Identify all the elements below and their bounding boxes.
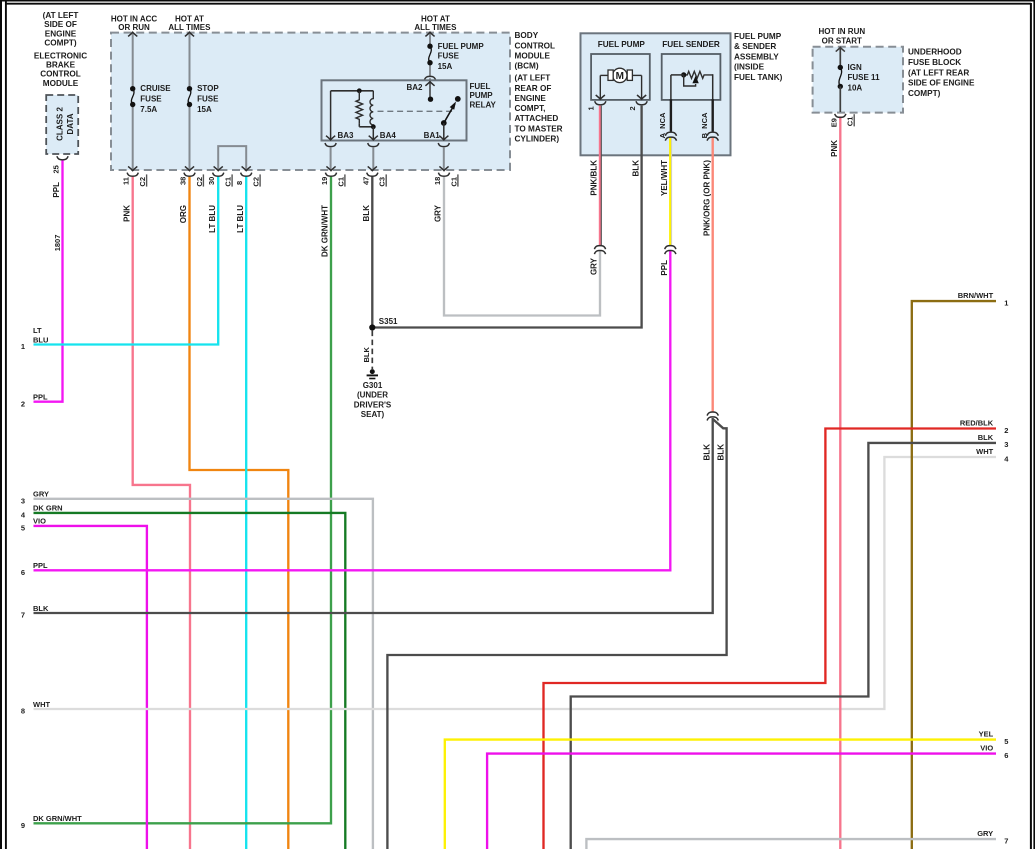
- svg-text:FUEL PUMP: FUEL PUMP: [734, 32, 782, 41]
- fuel pump fuse feed wire: [429, 33, 431, 46]
- svg-text:YEL/WHT: YEL/WHT: [660, 160, 669, 196]
- cruise fuse F1 7.5A: [130, 86, 135, 91]
- svg-text:2: 2: [21, 399, 25, 408]
- relay pin BA4: [372, 127, 374, 140]
- svg-text:SEAT): SEAT): [361, 410, 385, 419]
- wire VIO left row 5: [34, 526, 147, 849]
- svg-text:1: 1: [21, 342, 25, 351]
- svg-text:C2: C2: [252, 177, 261, 187]
- svg-text:47: 47: [361, 177, 370, 185]
- svg-text:CONTROL: CONTROL: [515, 41, 555, 50]
- svg-text:& SENDER: & SENDER: [734, 42, 776, 51]
- svg-text:REAR OF: REAR OF: [515, 84, 552, 93]
- wire GRY left row 3: [34, 499, 373, 849]
- svg-text:PNK: PNK: [122, 205, 131, 222]
- svg-text:(AT LEFT: (AT LEFT: [43, 11, 79, 20]
- BCM pin 8 C2: [242, 166, 251, 170]
- wire RED/BLK right row 2: [544, 429, 997, 849]
- svg-text:WHT: WHT: [33, 700, 50, 709]
- svg-text:3: 3: [21, 496, 25, 505]
- wire PNK from BCM pin 11: [133, 176, 190, 849]
- svg-text:GRY: GRY: [434, 204, 443, 222]
- svg-text:FUEL SENDER: FUEL SENDER: [662, 40, 720, 49]
- svg-text:1: 1: [1004, 298, 1008, 307]
- svg-text:11: 11: [122, 177, 131, 185]
- pump pin 1: [596, 95, 605, 99]
- svg-text:C1: C1: [224, 177, 233, 187]
- svg-text:DATA: DATA: [66, 113, 75, 134]
- EBCM pin 25: [57, 156, 68, 160]
- svg-text:FUSE: FUSE: [197, 94, 219, 103]
- svg-text:8: 8: [21, 707, 25, 716]
- svg-text:FUEL PUMP: FUEL PUMP: [438, 42, 485, 51]
- svg-text:LT BLU: LT BLU: [236, 205, 245, 233]
- stop fuse feed wire: [189, 33, 191, 88]
- svg-text:OR START: OR START: [822, 37, 862, 46]
- svg-text:(BCM): (BCM): [515, 62, 539, 71]
- wire BRN/WHT right row 1: [912, 301, 996, 849]
- wire BLK from BCM pin 47 to S351: [371, 176, 373, 327]
- wire LT BLU from BCM pin 8: [245, 176, 247, 849]
- svg-text:15A: 15A: [197, 105, 212, 114]
- sender rheostat: [684, 71, 713, 78]
- svg-text:BA2: BA2: [406, 83, 423, 92]
- pin E9 C1: [835, 114, 846, 118]
- BCM pin 30 C1: [214, 166, 223, 170]
- svg-text:COMPT,: COMPT,: [515, 104, 546, 113]
- svg-text:5: 5: [1004, 737, 1008, 746]
- svg-text:5: 5: [21, 524, 25, 533]
- svg-text:(AT LEFT REAR: (AT LEFT REAR: [908, 68, 969, 77]
- svg-text:ATTACHED: ATTACHED: [515, 114, 559, 123]
- relay coil top bus: [331, 90, 374, 92]
- inline connector GRY/PNK-BLK: [594, 246, 605, 250]
- fuel pump relay box: [322, 80, 467, 140]
- svg-text:6: 6: [21, 568, 25, 577]
- svg-text:A NCA: A NCA: [658, 112, 667, 138]
- splice S351: [369, 324, 375, 330]
- svg-text:ENGINE: ENGINE: [515, 94, 547, 103]
- cruise fuse feed wire: [132, 33, 134, 88]
- svg-text:GRY: GRY: [977, 829, 993, 838]
- svg-text:OR RUN: OR RUN: [118, 23, 150, 32]
- svg-text:(UNDER: (UNDER: [357, 391, 388, 400]
- BCM pin 18 C1: [439, 166, 448, 170]
- svg-text:CLASS 2: CLASS 2: [55, 107, 64, 141]
- loop linking pins 30 and 8: [218, 146, 246, 169]
- svg-text:PNK/ORG (OR PNK): PNK/ORG (OR PNK): [702, 160, 711, 236]
- svg-text:IGN: IGN: [848, 63, 862, 72]
- wire GRY right row 7: [586, 839, 996, 849]
- EBCM CLASS 2 DATA box: [46, 95, 78, 154]
- BCM pin 38 C2: [185, 166, 194, 170]
- IGN fuse feed wire: [839, 48, 841, 68]
- svg-text:BLU: BLU: [33, 335, 48, 344]
- svg-text:RELAY: RELAY: [470, 100, 497, 109]
- relay pin BA1: [443, 123, 445, 140]
- NCA connector B: [707, 132, 718, 136]
- svg-text:FUEL: FUEL: [470, 82, 491, 91]
- svg-text:BLK: BLK: [362, 347, 371, 363]
- svg-text:FUEL TANK): FUEL TANK): [734, 73, 783, 82]
- svg-text:C3: C3: [378, 177, 387, 187]
- BCM pin 47 C3: [368, 166, 377, 170]
- svg-text:BODY: BODY: [515, 31, 539, 40]
- svg-text:COMPT): COMPT): [908, 89, 941, 98]
- BLK wire S351 to ground: [371, 331, 373, 369]
- sender pin B: [712, 99, 714, 131]
- relay pin BA2: [425, 82, 434, 86]
- svg-text:BLK: BLK: [362, 205, 371, 222]
- inline connector BLK/PNK-ORG: [707, 412, 718, 416]
- fuel pump & sender assembly box: [581, 33, 731, 155]
- svg-text:PNK: PNK: [830, 140, 839, 157]
- svg-text:B NCA: B NCA: [700, 112, 709, 138]
- svg-text:COMPT): COMPT): [44, 39, 77, 48]
- svg-text:CONTROL: CONTROL: [40, 70, 80, 79]
- svg-text:M: M: [616, 71, 624, 82]
- svg-text:1807: 1807: [53, 235, 62, 252]
- svg-text:9: 9: [21, 821, 25, 830]
- svg-text:7: 7: [1004, 836, 1008, 845]
- relay switch contacts: [428, 97, 433, 102]
- ground G301: [370, 369, 375, 374]
- sender pin A: [670, 99, 672, 131]
- relay coil inductor: [370, 91, 373, 127]
- svg-text:8: 8: [235, 181, 244, 185]
- fuel pump fuse F3 15A: [427, 44, 432, 49]
- border frame: [0, 0, 2, 849]
- svg-text:FUSE 11: FUSE 11: [848, 73, 881, 82]
- wire YEL/WHT sender A above connector: [669, 138, 671, 246]
- relay coil resistor: [356, 91, 363, 124]
- svg-text:E9: E9: [829, 118, 838, 127]
- svg-text:C1: C1: [449, 177, 458, 187]
- wire YEL right row 5: [445, 740, 996, 849]
- svg-text:RED/BLK: RED/BLK: [960, 419, 994, 428]
- BCM module box: [111, 33, 510, 170]
- wire S351 BLK to fuel pump pin 2: [372, 106, 641, 328]
- svg-text:6: 6: [1004, 751, 1008, 760]
- svg-text:WHT: WHT: [976, 447, 993, 456]
- svg-text:3: 3: [1004, 440, 1008, 449]
- relay to BCM edge wires: [330, 147, 332, 169]
- svg-text:7: 7: [21, 611, 25, 620]
- svg-text:PPL: PPL: [52, 182, 61, 198]
- svg-text:19: 19: [320, 177, 329, 185]
- underhood fuse block box: [813, 47, 903, 113]
- svg-text:BLK: BLK: [978, 433, 994, 442]
- wire DK GRN left row 4: [34, 513, 346, 849]
- motor M1: [600, 74, 608, 76]
- svg-text:PPL: PPL: [33, 561, 48, 570]
- wire WHT left row 8 to right row 4: [34, 457, 997, 709]
- svg-text:10A: 10A: [848, 84, 863, 93]
- svg-text:C1: C1: [336, 177, 345, 187]
- wire GRY from BCM pin 18 to inline connector: [444, 176, 600, 315]
- stop fuse F2 15A: [187, 86, 192, 91]
- wire BLK branch from sender B connector to bottom: [387, 420, 726, 849]
- svg-text:G301: G301: [363, 381, 383, 390]
- svg-text:ORG: ORG: [179, 205, 188, 223]
- svg-text:SIDE OF: SIDE OF: [44, 20, 77, 29]
- wire PNK from IGN fuse E9: [839, 116, 841, 849]
- svg-text:ELECTRONIC: ELECTRONIC: [34, 51, 87, 60]
- svg-text:DK GRN/WHT: DK GRN/WHT: [321, 205, 330, 257]
- svg-text:FUSE: FUSE: [140, 94, 162, 103]
- svg-text:DRIVER'S: DRIVER'S: [354, 400, 392, 409]
- svg-text:PNK/BLK: PNK/BLK: [590, 160, 599, 196]
- svg-text:2: 2: [1004, 426, 1008, 435]
- sender right leg: [712, 74, 714, 99]
- BCM pin 19 C1: [326, 166, 335, 170]
- svg-text:(INSIDE: (INSIDE: [734, 63, 765, 72]
- svg-text:BLK: BLK: [33, 604, 49, 613]
- svg-text:PUMP: PUMP: [470, 91, 494, 100]
- svg-text:ASSEMBLY: ASSEMBLY: [734, 52, 779, 61]
- wire DK GRN/WHT from BCM pin 19 to left row 9: [34, 176, 332, 823]
- svg-text:LT: LT: [33, 326, 42, 335]
- svg-text:25: 25: [52, 165, 61, 173]
- svg-text:BLK: BLK: [631, 160, 640, 177]
- svg-text:GRY: GRY: [33, 490, 49, 499]
- svg-text:BRAKE: BRAKE: [46, 61, 76, 70]
- svg-text:CYLINDER): CYLINDER): [515, 135, 560, 144]
- svg-text:FUEL PUMP: FUEL PUMP: [598, 40, 646, 49]
- svg-text:1: 1: [587, 106, 596, 110]
- svg-text:2: 2: [628, 106, 637, 110]
- svg-text:UNDERHOOD: UNDERHOOD: [908, 48, 962, 57]
- svg-text:BA4: BA4: [380, 131, 397, 140]
- NCA connector A: [665, 132, 676, 136]
- svg-text:C1: C1: [846, 117, 855, 127]
- wire VIO right row 6: [487, 754, 996, 849]
- svg-text:ENGINE: ENGINE: [45, 29, 77, 38]
- svg-text:SIDE OF ENGINE: SIDE OF ENGINE: [908, 79, 975, 88]
- wire BLK right row 3: [571, 443, 996, 849]
- wire ORG from BCM pin 38: [190, 176, 289, 849]
- FUEL PUMP inner box: [591, 54, 650, 100]
- svg-text:PPL: PPL: [33, 393, 48, 402]
- svg-text:BA3: BA3: [338, 131, 355, 140]
- svg-text:VIO: VIO: [33, 517, 46, 526]
- svg-text:DK GRN: DK GRN: [33, 504, 63, 513]
- svg-text:MODULE: MODULE: [515, 52, 551, 61]
- svg-text:CRUISE: CRUISE: [140, 84, 171, 93]
- FUEL SENDER inner box: [662, 54, 721, 100]
- svg-text:TO MASTER: TO MASTER: [515, 124, 563, 133]
- svg-text:MODULE: MODULE: [43, 79, 79, 88]
- wire BLK left row 7 to sender B connector: [34, 418, 713, 613]
- svg-text:S351: S351: [379, 317, 398, 326]
- wire PNK/ORG sender B above connector: [712, 138, 714, 412]
- svg-text:BLK: BLK: [717, 444, 726, 461]
- svg-text:7.5A: 7.5A: [140, 105, 157, 114]
- svg-text:YEL: YEL: [979, 730, 994, 739]
- svg-text:HOT IN RUN: HOT IN RUN: [818, 27, 865, 36]
- svg-text:ALL TIMES: ALL TIMES: [168, 23, 211, 32]
- svg-text:FUSE: FUSE: [438, 52, 460, 61]
- svg-text:(AT LEFT: (AT LEFT: [515, 74, 551, 83]
- svg-text:BLK: BLK: [702, 444, 711, 461]
- svg-text:38: 38: [179, 177, 188, 185]
- relay switch dashed link: [378, 110, 454, 112]
- svg-text:BA1: BA1: [424, 131, 441, 140]
- relay pin BA3: [330, 91, 332, 140]
- svg-text:STOP: STOP: [197, 84, 219, 93]
- pump pin 2: [637, 95, 646, 99]
- BCM pin 11 C2: [128, 166, 137, 170]
- wire PPL left row 6 to fuel sender connector: [34, 251, 671, 571]
- connector arc into relay: [424, 76, 435, 80]
- svg-text:DK GRN/WHT: DK GRN/WHT: [33, 814, 82, 823]
- svg-text:VIO: VIO: [980, 744, 993, 753]
- IGN fuse 11 10A: [838, 65, 843, 70]
- svg-text:ALL TIMES: ALL TIMES: [414, 23, 457, 32]
- inline connector PPL/YEL-WHT: [665, 246, 676, 250]
- wire GRY connector to fuel pump pin 1 (GRY up then PNK/BLK): [599, 106, 601, 246]
- wire PPL 1807 from EBCM pin 25 to left row 2: [34, 160, 63, 402]
- svg-text:C2: C2: [195, 177, 204, 187]
- svg-text:18: 18: [433, 177, 442, 185]
- svg-text:30: 30: [207, 177, 216, 185]
- svg-text:PPL: PPL: [660, 260, 669, 276]
- svg-text:BRN/WHT: BRN/WHT: [958, 291, 994, 300]
- svg-text:15A: 15A: [438, 62, 453, 71]
- svg-text:FUSE BLOCK: FUSE BLOCK: [908, 58, 961, 67]
- svg-text:C2: C2: [138, 177, 147, 187]
- svg-text:LT BLU: LT BLU: [208, 205, 217, 233]
- wire LT BLU from BCM pin 30 to left row 1: [34, 176, 219, 344]
- sender wiper: [684, 75, 696, 86]
- svg-text:GRY: GRY: [590, 257, 599, 275]
